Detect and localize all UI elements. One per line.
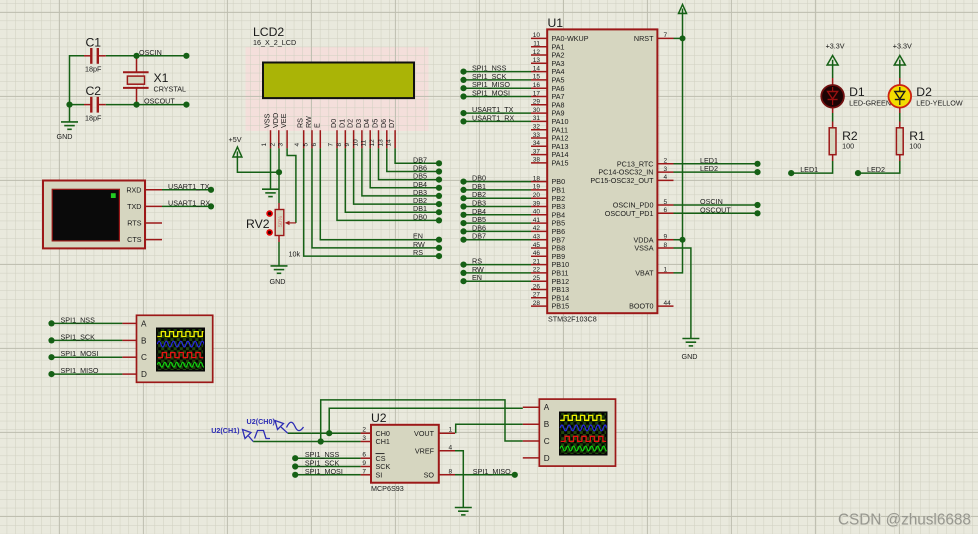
svg-text:C: C bbox=[141, 353, 147, 362]
svg-text:EN: EN bbox=[472, 273, 482, 282]
svg-text:OSCOUT: OSCOUT bbox=[700, 205, 731, 214]
wire VEE to RV2 wiper bbox=[287, 148, 296, 223]
svg-text:8: 8 bbox=[449, 468, 453, 475]
wire SPI1_MISO to U1 bbox=[464, 87, 532, 89]
U2 pin 4 VREF bbox=[439, 450, 455, 452]
LCD pin 12 D5 bbox=[378, 130, 380, 148]
U2 pin 7 SI bbox=[361, 474, 371, 476]
U1 pin 26 PB13 bbox=[531, 289, 547, 291]
svg-text:LED1: LED1 bbox=[800, 165, 818, 174]
wire SPI1_MOSI to U2 bbox=[295, 474, 360, 476]
svg-text:18pF: 18pF bbox=[85, 65, 102, 74]
svg-text:DB0: DB0 bbox=[413, 212, 427, 221]
wire RS to U1 bbox=[464, 264, 532, 266]
node DB7 terminal bbox=[436, 160, 442, 166]
wire USART1_TX to U1 bbox=[464, 112, 532, 114]
node SPI1_SCK terminal (scope) bbox=[48, 337, 54, 343]
wire DB4 from LCD bbox=[370, 148, 439, 187]
pin TXD stub bbox=[145, 205, 162, 207]
svg-text:37: 37 bbox=[533, 148, 541, 155]
LCD pin 11 D4 bbox=[369, 130, 371, 148]
U2 pin 3 CH1 bbox=[361, 441, 371, 443]
wire power to D2 bbox=[899, 65, 901, 79]
svg-text:40: 40 bbox=[533, 209, 541, 216]
node OSCIN terminal bbox=[754, 202, 760, 208]
U1 pin 45 PB8 bbox=[531, 247, 547, 249]
svg-text:42: 42 bbox=[533, 225, 541, 232]
U1 pin 32 PA11 bbox=[531, 129, 547, 131]
node OSCOUT terminal bbox=[183, 102, 189, 108]
wire R1 to LED2 terminal bbox=[899, 155, 901, 161]
svg-text:MCP6S93: MCP6S93 bbox=[371, 484, 404, 493]
svg-text:CTS: CTS bbox=[127, 235, 142, 244]
svg-text:5: 5 bbox=[303, 143, 310, 147]
wire LED1 from U1 bbox=[674, 163, 758, 165]
svg-text:26: 26 bbox=[533, 283, 541, 290]
wire DB2 to U1 bbox=[464, 197, 532, 199]
svg-text:6: 6 bbox=[311, 143, 318, 147]
U1 pin 16 PA6 bbox=[531, 87, 547, 89]
svg-text:SPI1_MISO: SPI1_MISO bbox=[473, 467, 511, 476]
U1 pin 29 PA8 bbox=[531, 104, 547, 106]
node USART1_RX terminal bbox=[460, 118, 466, 124]
svg-text:13: 13 bbox=[533, 57, 541, 64]
LCD pin 14 D7 bbox=[394, 130, 396, 148]
svg-text:12: 12 bbox=[369, 139, 376, 147]
wire OSCIN net bbox=[106, 55, 187, 57]
svg-text:22: 22 bbox=[533, 267, 541, 274]
svg-text:VBAT: VBAT bbox=[635, 269, 654, 278]
node RS terminal bbox=[460, 262, 466, 268]
svg-text:+3.3V: +3.3V bbox=[826, 42, 845, 51]
node DB1 terminal bbox=[460, 187, 466, 193]
U1 pin 22 PB11 bbox=[531, 272, 547, 274]
node SPI1_NSS terminal (U2) bbox=[292, 455, 298, 461]
node SPI1_MISO terminal (scope) bbox=[48, 371, 54, 377]
svg-text:A: A bbox=[141, 319, 147, 328]
LCD pin 9 D2 bbox=[353, 130, 355, 148]
wire VREF to ground bbox=[455, 451, 463, 508]
svg-text:30: 30 bbox=[533, 107, 541, 114]
svg-text:9: 9 bbox=[664, 234, 668, 241]
wire C1 left to GND rail bbox=[70, 56, 85, 122]
node DB0 terminal bbox=[436, 217, 442, 223]
svg-text:LED2: LED2 bbox=[867, 165, 885, 174]
U1 pin 30 PA9 bbox=[531, 112, 547, 114]
svg-text:OSCIN: OSCIN bbox=[139, 48, 162, 57]
wire DB7 from LCD bbox=[395, 148, 439, 163]
wire C2 left bbox=[70, 104, 85, 106]
node OSCOUT junction bbox=[133, 102, 139, 108]
wire SPI1_NSS to U1 bbox=[464, 71, 532, 73]
node EN terminal bbox=[436, 237, 442, 243]
pin RXD stub bbox=[145, 189, 162, 191]
wire OSCIN from U1 bbox=[674, 204, 758, 206]
svg-text:VOUT: VOUT bbox=[414, 429, 435, 438]
wire USART1_TX bbox=[162, 189, 211, 191]
svg-text:16: 16 bbox=[533, 82, 541, 89]
svg-text:X1: X1 bbox=[154, 71, 169, 85]
svg-text:2: 2 bbox=[362, 427, 366, 434]
U1 pin 28 PB15 bbox=[531, 305, 547, 307]
U2 pin 6 CS bbox=[361, 457, 371, 459]
svg-text:14: 14 bbox=[386, 139, 393, 147]
svg-text:VEE: VEE bbox=[279, 113, 288, 128]
svg-text:SPI1_NSS: SPI1_NSS bbox=[61, 315, 96, 324]
wire VSS to ground bbox=[270, 148, 272, 189]
wire SPI1_MISO to scope A/B/C/D bbox=[52, 373, 123, 375]
svg-text:D7: D7 bbox=[387, 119, 396, 128]
pin CTS stub bbox=[145, 239, 162, 241]
svg-text:100: 100 bbox=[909, 142, 921, 151]
svg-text:25: 25 bbox=[533, 275, 541, 282]
node DB6 terminal bbox=[460, 228, 466, 234]
node RW terminal bbox=[460, 270, 466, 276]
svg-text:U1: U1 bbox=[548, 16, 564, 30]
svg-text:17: 17 bbox=[533, 90, 541, 97]
wire SPI1_NSS to scope A/B/C/D bbox=[52, 322, 123, 324]
svg-text:4: 4 bbox=[664, 174, 668, 181]
svg-text:41: 41 bbox=[533, 217, 541, 224]
crystal X1 bbox=[123, 56, 149, 105]
svg-text:D: D bbox=[544, 454, 550, 463]
svg-text:34: 34 bbox=[533, 140, 541, 147]
node SPI1_MOSI terminal (U2) bbox=[292, 472, 298, 478]
svg-text:6: 6 bbox=[664, 207, 668, 214]
wire +3.3V rail bbox=[682, 14, 684, 240]
LCD LCD2 16x2 display body bbox=[263, 63, 414, 99]
LCD pin 3 VEE bbox=[286, 130, 288, 148]
svg-text:7: 7 bbox=[328, 143, 335, 147]
capacitor C2 bbox=[84, 97, 106, 113]
wire DB4 to U1 bbox=[464, 214, 532, 216]
svg-text:50%: 50% bbox=[278, 216, 284, 227]
LCD pin 1 VSS bbox=[270, 130, 272, 148]
virtual terminal instrument bbox=[43, 181, 145, 249]
U1 pin 27 PB14 bbox=[531, 297, 547, 299]
svg-text:27: 27 bbox=[533, 292, 541, 299]
resistor R2 100 bbox=[829, 128, 836, 155]
power +3.3V (D2) bbox=[894, 56, 905, 66]
U1 pin 19 PB1 bbox=[531, 189, 547, 191]
svg-text:2: 2 bbox=[664, 158, 668, 165]
svg-text:28: 28 bbox=[533, 300, 541, 307]
svg-text:RTS: RTS bbox=[127, 219, 141, 228]
wire SPI1_SCK to U1 bbox=[464, 79, 532, 81]
node DB0 terminal bbox=[460, 179, 466, 185]
svg-text:21: 21 bbox=[533, 258, 541, 265]
U1 pin 33 PA12 bbox=[531, 137, 547, 139]
wire DB1 from LCD bbox=[345, 148, 439, 212]
resistor R1 100 bbox=[896, 128, 903, 155]
wire VDD to RV2 bbox=[278, 148, 280, 203]
svg-text:+3.3V: +3.3V bbox=[893, 42, 912, 51]
LCD pin 8 D1 bbox=[344, 130, 346, 148]
wire VDDA/VBAT rail bbox=[674, 240, 683, 273]
svg-text:9: 9 bbox=[362, 460, 366, 467]
wire USART1_RX bbox=[162, 205, 211, 207]
node RW terminal bbox=[436, 245, 442, 251]
wire power to D1 bbox=[832, 65, 834, 79]
svg-text:DB7: DB7 bbox=[472, 232, 486, 241]
svg-text:U2(CH1): U2(CH1) bbox=[211, 426, 240, 435]
node LED2 terminal bbox=[855, 170, 861, 176]
svg-text:33: 33 bbox=[533, 132, 541, 139]
U1 pin 4 PC15-OSC32_OUT bbox=[657, 179, 673, 181]
oscilloscope SPI monitor body bbox=[137, 315, 213, 382]
LED D2 LED-YELLOW bbox=[889, 85, 912, 108]
node USART1_TX terminal bbox=[460, 110, 466, 116]
svg-text:SPI1_MISO: SPI1_MISO bbox=[61, 366, 99, 375]
node OSCOUT terminal bbox=[754, 210, 760, 216]
svg-text:+5V: +5V bbox=[229, 135, 242, 144]
svg-text:CSDN @zhusl6688: CSDN @zhusl6688 bbox=[838, 512, 971, 529]
node EN terminal bbox=[460, 278, 466, 284]
U1 pin 10 PA0-WKUP bbox=[531, 37, 547, 39]
U1 pin 18 PB0 bbox=[531, 181, 547, 183]
node SPI1_SCK terminal (U2) bbox=[292, 463, 298, 469]
svg-text:2: 2 bbox=[269, 143, 276, 147]
node DB5 terminal bbox=[460, 220, 466, 226]
wire DB0 from LCD bbox=[337, 148, 439, 220]
node DB5 terminal bbox=[436, 177, 442, 183]
U1 pin 9 VDDA bbox=[657, 239, 673, 241]
U1 pin 31 PA10 bbox=[531, 120, 547, 122]
node DB4 terminal bbox=[436, 185, 442, 191]
node SPI1_MISO terminal (U2) bbox=[512, 472, 518, 478]
node DB2 terminal bbox=[460, 195, 466, 201]
node +5V/VDD junction bbox=[276, 169, 282, 175]
svg-text:SPI1_MOSI: SPI1_MOSI bbox=[472, 89, 510, 98]
svg-text:C1: C1 bbox=[86, 36, 102, 50]
U1 pin 6 OSCOUT_PD1 bbox=[657, 212, 673, 214]
svg-text:PC15-OSC32_OUT: PC15-OSC32_OUT bbox=[590, 176, 654, 185]
svg-text:1: 1 bbox=[449, 427, 453, 434]
svg-text:TXD: TXD bbox=[127, 202, 141, 211]
wire SPI1_MOSI to U1 bbox=[464, 96, 532, 98]
pin RTS stub bbox=[145, 222, 162, 224]
wire DB6 from LCD bbox=[387, 148, 439, 171]
wire EN to U1 bbox=[464, 280, 532, 282]
svg-text:LED2: LED2 bbox=[700, 164, 718, 173]
svg-text:7: 7 bbox=[362, 468, 366, 475]
svg-text:LED-YELLOW: LED-YELLOW bbox=[916, 99, 963, 108]
U2 pin 9 SCK bbox=[361, 466, 371, 468]
svg-text:VREF: VREF bbox=[415, 446, 435, 455]
node CH1 junction bbox=[318, 438, 324, 444]
node LED1 terminal bbox=[788, 170, 794, 176]
U1 pin 14 PA4 bbox=[531, 71, 547, 73]
node SPI1_MOSI terminal (scope) bbox=[48, 354, 54, 360]
svg-text:C2: C2 bbox=[86, 84, 102, 98]
svg-text:9: 9 bbox=[344, 143, 351, 147]
U1 pin 44 BOOT0 bbox=[657, 305, 673, 307]
svg-text:3: 3 bbox=[278, 143, 285, 147]
U2 pin 2 CH0 bbox=[361, 432, 371, 434]
node DB7 terminal bbox=[460, 237, 466, 243]
wire SO to SPI1_MISO bbox=[455, 474, 515, 476]
svg-text:E: E bbox=[312, 123, 321, 128]
svg-text:20: 20 bbox=[533, 192, 541, 199]
node SPI1_MOSI terminal bbox=[460, 93, 466, 99]
svg-text:A: A bbox=[544, 403, 550, 412]
U1 pin 7 NRST bbox=[657, 37, 673, 39]
wire USART1_RX to U1 bbox=[464, 120, 532, 122]
LED D1 LED-GREEN bbox=[821, 85, 844, 108]
U1 pin 2 PC13_RTC bbox=[657, 163, 673, 165]
svg-text:USART1_RX: USART1_RX bbox=[472, 113, 514, 122]
U1 pin 40 PB4 bbox=[531, 214, 547, 216]
svg-text:18pF: 18pF bbox=[85, 114, 102, 123]
svg-text:CH1: CH1 bbox=[376, 437, 390, 446]
node DB3 terminal bbox=[436, 193, 442, 199]
svg-text:USART1_RX: USART1_RX bbox=[168, 198, 210, 207]
LCD pin 4 RS bbox=[303, 130, 305, 148]
U2 pin 1 VOUT bbox=[439, 432, 455, 434]
svg-text:11: 11 bbox=[533, 41, 540, 48]
microcontroller U1 STM32F103C8 body bbox=[547, 29, 657, 313]
potentiometer RV2 bbox=[266, 210, 296, 236]
svg-text:8: 8 bbox=[336, 143, 343, 147]
node SPI1_SCK terminal bbox=[460, 77, 466, 83]
wire RS from LCD bbox=[304, 148, 439, 256]
svg-text:NRST: NRST bbox=[634, 34, 654, 43]
svg-text:VSSA: VSSA bbox=[634, 244, 653, 253]
ground (crystal) bbox=[61, 122, 78, 129]
ground (U1) bbox=[682, 339, 699, 346]
node SPI1_NSS terminal bbox=[460, 69, 466, 75]
svg-text:GND: GND bbox=[57, 132, 73, 141]
node LED2 terminal bbox=[754, 169, 760, 175]
svg-text:SPI1_MOSI: SPI1_MOSI bbox=[305, 467, 343, 476]
U1 pin 43 PB7 bbox=[531, 239, 547, 241]
U1 pin 15 PA5 bbox=[531, 79, 547, 81]
svg-text:29: 29 bbox=[533, 99, 541, 106]
svg-text:LED-GREEN: LED-GREEN bbox=[849, 99, 891, 108]
svg-text:10k: 10k bbox=[289, 250, 301, 259]
svg-text:D1: D1 bbox=[849, 85, 865, 99]
LCD pin 10 D3 bbox=[361, 130, 363, 148]
U1 pin 13 PA3 bbox=[531, 62, 547, 64]
svg-text:44: 44 bbox=[664, 300, 672, 307]
wire DB1 to U1 bbox=[464, 189, 532, 191]
U1 pin 38 PA15 bbox=[531, 162, 547, 164]
svg-text:1: 1 bbox=[664, 267, 668, 274]
svg-text:12: 12 bbox=[533, 49, 541, 56]
oscilloscope PGA monitor body bbox=[539, 399, 615, 466]
U1 pin 3 PC14-OSC32_IN bbox=[657, 171, 673, 173]
node SPI1_MISO terminal bbox=[460, 85, 466, 91]
U1 pin 34 PA13 bbox=[531, 145, 547, 147]
node USART1_TX terminal bbox=[208, 187, 214, 193]
U1 pin 5 OSCIN_PD0 bbox=[657, 204, 673, 206]
probe U2(CH1) bbox=[243, 430, 271, 442]
wire D2 to R1 bbox=[899, 108, 901, 113]
LCD pin 5 RW bbox=[311, 130, 313, 148]
svg-text:USART1_TX: USART1_TX bbox=[168, 182, 210, 191]
U1 pin 8 VSSA bbox=[657, 247, 673, 249]
U1 pin 37 PA14 bbox=[531, 154, 547, 156]
svg-text:OSCOUT: OSCOUT bbox=[144, 97, 175, 106]
probe U2(CH0) bbox=[275, 421, 304, 434]
node DB1 terminal bbox=[436, 209, 442, 215]
svg-text:8: 8 bbox=[664, 242, 668, 249]
node OSCIN terminal bbox=[183, 53, 189, 59]
svg-text:GND: GND bbox=[682, 352, 698, 361]
scope waveforms (PGA monitor) bbox=[560, 415, 610, 451]
svg-text:GND: GND bbox=[270, 277, 286, 286]
svg-text:18: 18 bbox=[533, 175, 541, 182]
wire DB3 from LCD bbox=[362, 148, 439, 196]
power +3.3V (D1) bbox=[827, 56, 838, 66]
svg-text:RV2: RV2 bbox=[246, 217, 270, 231]
U1 pin 20 PB2 bbox=[531, 197, 547, 199]
svg-text:46: 46 bbox=[533, 250, 541, 257]
node DB3 terminal bbox=[460, 203, 466, 209]
wire SPI1_NSS to U2 bbox=[295, 457, 360, 459]
wire RW to U1 bbox=[464, 272, 532, 274]
svg-text:14: 14 bbox=[533, 65, 541, 72]
node DB4 terminal bbox=[460, 212, 466, 218]
wire VSSA/BOOT0 to ground bbox=[674, 248, 691, 339]
ground (RV2) bbox=[271, 266, 288, 273]
wire RV2 to ground bbox=[278, 236, 280, 243]
svg-text:B: B bbox=[544, 420, 550, 429]
node CH0 junction bbox=[326, 430, 332, 436]
wire OSCOUT net bbox=[106, 104, 187, 106]
svg-text:U2: U2 bbox=[371, 411, 387, 425]
node OSCIN junction bbox=[133, 53, 139, 59]
U1 pin 12 PA2 bbox=[531, 54, 547, 56]
svg-text:11: 11 bbox=[361, 139, 368, 146]
svg-text:19: 19 bbox=[533, 184, 541, 191]
svg-text:16_X_2_LCD: 16_X_2_LCD bbox=[253, 38, 296, 47]
svg-text:STM32F103C8: STM32F103C8 bbox=[548, 315, 597, 324]
U1 pin 46 PB9 bbox=[531, 255, 547, 257]
U2 pin 8 SO bbox=[439, 474, 455, 476]
wire SPI1_SCK to scope A/B/C/D bbox=[52, 339, 123, 341]
wire DB7 to U1 bbox=[464, 239, 532, 241]
node USART1_RX terminal bbox=[208, 203, 214, 209]
LCD pin 13 D6 bbox=[386, 130, 388, 148]
node NRST junction bbox=[680, 35, 686, 41]
wire +5V to VDD bbox=[237, 156, 279, 172]
power +5V bbox=[233, 147, 242, 157]
wire LED2 from U1 bbox=[674, 171, 758, 173]
node RS terminal bbox=[436, 253, 442, 259]
scope2 pin D stub bbox=[523, 457, 540, 459]
wire D1 to R2 bbox=[832, 108, 834, 113]
node LED1 terminal bbox=[754, 161, 760, 167]
svg-text:B: B bbox=[141, 336, 147, 345]
scope waveforms (SPI monitor) bbox=[157, 332, 207, 368]
svg-text:D2: D2 bbox=[916, 85, 932, 99]
wire CH0 net to scope A bbox=[288, 408, 523, 433]
svg-text:38: 38 bbox=[533, 157, 541, 164]
LCD pin 2 VDD bbox=[278, 130, 280, 148]
ground (LCD VSS) bbox=[262, 189, 279, 196]
svg-text:1: 1 bbox=[261, 143, 268, 147]
svg-text:32: 32 bbox=[533, 124, 541, 131]
svg-text:5: 5 bbox=[664, 199, 668, 206]
LCD pin 6 E bbox=[319, 130, 321, 148]
svg-text:SPI1_SCK: SPI1_SCK bbox=[61, 332, 96, 341]
U1 pin 39 PB3 bbox=[531, 206, 547, 208]
wire DB3 to U1 bbox=[464, 206, 532, 208]
svg-text:LCD2: LCD2 bbox=[253, 25, 284, 39]
U1 pin 25 PB12 bbox=[531, 280, 547, 282]
svg-text:PA15: PA15 bbox=[552, 159, 569, 168]
